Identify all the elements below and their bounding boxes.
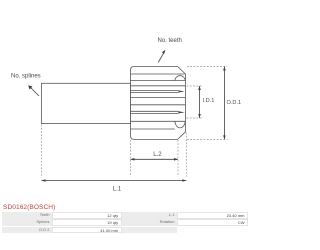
table row2 value 19 qty [52,219,122,225]
L2 dimension arrow [131,158,179,160]
leader arrow No. splines [30,87,39,96]
part number title [3,204,55,211]
table row2 label Rotation [122,219,177,225]
tooth line y97.6 [131,97,186,99]
table row1 value 12 qty [52,212,122,218]
table row2 value CW [177,219,248,225]
tooth wedge 2 [179,111,185,113]
extension line L1 left [41,125,43,178]
L.1 dimension arrow [42,180,187,182]
svg-text:No. splines: No. splines [11,74,41,80]
svg-text:No. teeth: No. teeth [158,38,182,44]
tooth wedge 1 [179,90,185,92]
table row2 label Splines [2,219,52,225]
I.D.1 dimension arrow [199,86,201,118]
O.D.1 dimension arrow [223,67,225,140]
tooth band top y111.3 [131,110,179,112]
table row3 value empty [177,227,248,233]
svg-text:L.2: L.2 [153,152,162,158]
extension line O.D. bottom [187,138,228,140]
tooth band top y90.4 [131,89,179,91]
svg-text:O.D.1: O.D.1 [227,100,242,106]
table row1 label Teeth [2,212,52,218]
gear body outline [131,67,186,140]
extension line L2 right [177,140,179,177]
tooth line y121.3 [131,120,186,122]
svg-text:I.D.1: I.D.1 [203,98,215,104]
tooth band bottom y92.5 [131,92,179,94]
leader arrow No. teeth [158,52,164,62]
extension line L1 right [185,133,187,177]
table row3 label O.D.2 [2,227,52,233]
shaft (splined cylinder) [42,83,131,123]
svg-text:L.1: L.1 [113,187,122,193]
extension line I.D. top [187,85,203,87]
table row1 value 23.40 mm [177,212,248,218]
extension line I.D. bottom [187,117,203,119]
extension line L2 left [130,140,132,177]
upper tooth chamfer arc [175,76,186,81]
tooth line y74 [131,73,185,75]
table row3 label empty [122,227,177,233]
table row1 label L.1 [122,212,177,218]
tooth line y80.5 [131,80,186,82]
table row3 value 41.00 mm [52,227,122,233]
tooth line y129 [131,128,175,130]
lower tooth chamfer arc [175,121,186,128]
tooth band bottom y113.4 [131,112,179,114]
extension line O.D. top [187,66,228,68]
bore line y85.8 [131,85,186,87]
tooth line y104.8 [131,104,186,106]
